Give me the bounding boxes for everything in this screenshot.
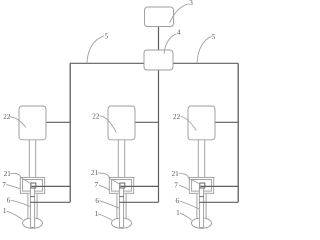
- svg-text:5: 5: [212, 33, 216, 41]
- svg-text:21: 21: [172, 170, 180, 178]
- svg-text:1: 1: [95, 210, 99, 218]
- svg-text:22: 22: [3, 113, 11, 121]
- svg-text:7: 7: [95, 181, 99, 189]
- svg-text:6: 6: [7, 197, 11, 205]
- svg-text:1: 1: [3, 207, 7, 215]
- svg-text:5: 5: [105, 33, 109, 41]
- svg-text:21: 21: [91, 169, 99, 177]
- svg-text:22: 22: [173, 113, 181, 121]
- svg-text:6: 6: [176, 197, 180, 205]
- svg-text:6: 6: [95, 197, 99, 205]
- svg-text:1: 1: [176, 209, 180, 217]
- svg-text:22: 22: [92, 112, 100, 120]
- svg-text:7: 7: [2, 181, 6, 189]
- svg-text:7: 7: [174, 181, 178, 189]
- svg-text:3: 3: [189, 0, 193, 7]
- svg-text:21: 21: [4, 170, 12, 178]
- svg-text:4: 4: [177, 29, 181, 37]
